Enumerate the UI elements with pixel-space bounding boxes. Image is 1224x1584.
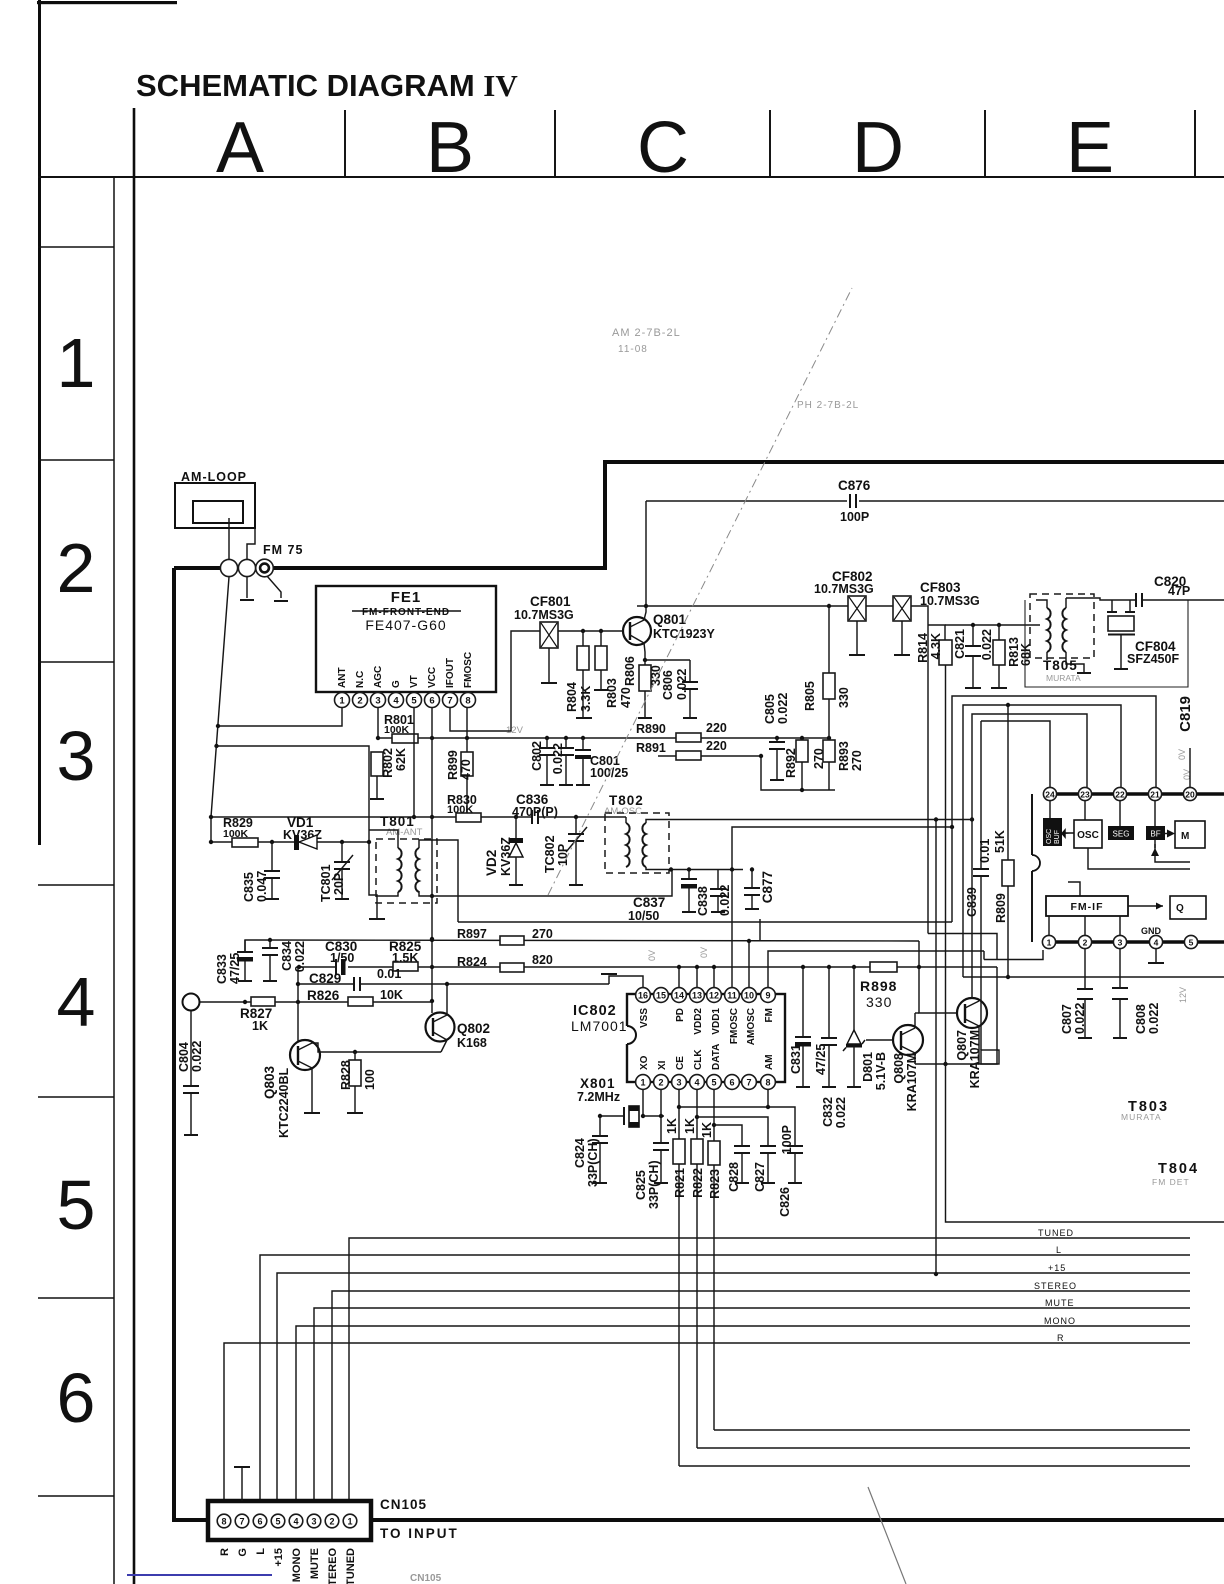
svg-text:20: 20 [1185, 790, 1195, 800]
wire loop1 [952, 696, 1156, 922]
svg-text:3: 3 [1118, 938, 1123, 948]
svg-text:C831: C831 [789, 1044, 803, 1074]
svg-text:16: 16 [638, 991, 648, 1001]
wire IF to pin1 [928, 934, 997, 960]
wire VCC pin6 drop [431, 708, 433, 738]
svg-text:R802: R802 [381, 748, 395, 778]
svg-text:MONO: MONO [291, 1548, 303, 1583]
wire rail y984 C829 [299, 983, 354, 985]
svg-text:R809: R809 [994, 893, 1008, 923]
svg-text:SFZ450F: SFZ450F [1127, 652, 1179, 666]
svg-text:47/25: 47/25 [228, 953, 242, 984]
svg-text:R803: R803 [605, 678, 619, 708]
svg-text:MURATA: MURATA [1046, 673, 1081, 683]
svg-text:R: R [219, 1548, 231, 1556]
transistor Q801 [623, 617, 651, 645]
wire Q807 base rail [919, 941, 957, 1013]
svg-text:C806: C806 [661, 670, 675, 700]
svg-text:CF801: CF801 [530, 594, 571, 609]
svg-text:4: 4 [1154, 938, 1159, 948]
capacitor C828 [734, 1145, 750, 1147]
svg-text:VD2: VD2 [484, 850, 499, 876]
capacitor 0.022 [564, 736, 568, 740]
IC801 top pin bus [1043, 792, 1224, 795]
svg-text:24: 24 [1045, 790, 1055, 800]
svg-text:1K: 1K [700, 1122, 714, 1138]
resistor R805 [828, 606, 830, 738]
svg-text:22: 22 [1115, 790, 1125, 800]
svg-text:R899: R899 [446, 750, 460, 780]
svg-text:XI: XI [657, 1060, 668, 1070]
svg-text:4: 4 [57, 963, 96, 1041]
block SEG [1119, 801, 1121, 826]
wire spine x432 [431, 738, 433, 1013]
svg-text:2: 2 [357, 696, 362, 707]
svg-text:R892: R892 [784, 748, 798, 778]
svg-text:8: 8 [465, 696, 470, 707]
IC801 bottom pin bus [1042, 940, 1224, 943]
svg-text:100P: 100P [780, 1125, 794, 1154]
wire Q801 collector rail to filters [637, 605, 848, 607]
wire T802 secondary bottom [646, 867, 743, 870]
wire AM osc line y922 [458, 921, 952, 923]
svg-text:20P: 20P [332, 873, 346, 895]
diode D801 zener [852, 965, 856, 969]
svg-text:33P(CH): 33P(CH) [647, 1160, 661, 1209]
wire pin3 AGC drop [377, 708, 379, 738]
svg-text:X801: X801 [580, 1076, 616, 1091]
block OSC BUF [1049, 801, 1051, 818]
IC801 bottom pins [1042, 935, 1197, 948]
svg-text:7: 7 [239, 1517, 244, 1527]
svg-text:C804: C804 [177, 1042, 191, 1072]
svg-text:3.3K: 3.3K [579, 686, 593, 712]
svg-text:AM-OSC: AM-OSC [604, 806, 642, 817]
wire AM rail y842 [211, 841, 369, 843]
transistor Q807 [957, 998, 987, 1028]
svg-text:10.7MS3G: 10.7MS3G [514, 608, 574, 622]
svg-text:62K: 62K [394, 748, 408, 771]
svg-text:C805: C805 [763, 694, 777, 724]
wire filter rail to T805 [945, 624, 1040, 626]
page frame left border [38, 0, 41, 845]
svg-text:1K: 1K [252, 1019, 268, 1033]
svg-text:MUTE: MUTE [1045, 1298, 1075, 1308]
svg-text:VT: VT [409, 675, 420, 688]
capacitor C826 [787, 1145, 803, 1147]
svg-text:FM-IF: FM-IF [1071, 901, 1104, 913]
capacitor C831 electrolytic [801, 965, 805, 969]
bus line3 +15 [277, 1273, 1190, 1501]
column header ticks [344, 110, 346, 177]
svg-text:N.C: N.C [355, 671, 366, 688]
svg-text:Q807: Q807 [955, 1030, 969, 1061]
bus line4 STEREO [332, 1291, 1190, 1501]
svg-text:D801: D801 [861, 1052, 875, 1082]
svg-text:PH 2-7B-2L: PH 2-7B-2L [797, 400, 859, 411]
svg-text:TUNED: TUNED [1038, 1228, 1074, 1238]
svg-text:4.3K: 4.3K [929, 633, 943, 659]
wire pad stubs [211, 577, 229, 842]
svg-text:2: 2 [329, 1517, 334, 1527]
svg-text:330: 330 [866, 994, 892, 1010]
svg-text:C839: C839 [965, 887, 979, 917]
fold mark diagonal [548, 288, 852, 895]
capacitor C801 electrolytic [581, 736, 585, 740]
svg-text:1K: 1K [665, 1118, 679, 1134]
CN105 pins [217, 1514, 357, 1528]
svg-text:6: 6 [429, 696, 434, 707]
capacitor C833 electrolytic [244, 940, 246, 952]
svg-text:470: 470 [459, 759, 473, 780]
svg-text:PD: PD [675, 1008, 686, 1022]
svg-text:R890: R890 [636, 722, 666, 736]
capacitor C832 [827, 965, 831, 969]
wire T801 primary top [369, 830, 398, 848]
wire pins 14,13,12 to rail [678, 967, 680, 987]
svg-text:5: 5 [711, 1078, 716, 1088]
svg-text:1: 1 [339, 696, 345, 707]
svg-text:3: 3 [57, 717, 96, 795]
bus line7 R [224, 1343, 1190, 1501]
svg-text:FMOSC: FMOSC [463, 652, 474, 688]
wire stub x760 [759, 919, 761, 941]
svg-text:R891: R891 [636, 741, 666, 755]
bus line6 MONO [296, 1326, 1190, 1501]
wire pin20 riser [1189, 748, 1191, 787]
svg-text:C829: C829 [309, 971, 341, 986]
wire left column x298 [297, 967, 299, 1048]
svg-text:4: 4 [694, 1078, 699, 1088]
svg-text:5: 5 [57, 1166, 96, 1244]
svg-text:C838: C838 [696, 886, 710, 916]
wire thick main loop (antenna rail / +B frame) [174, 462, 1224, 568]
svg-text:2: 2 [57, 529, 96, 607]
svg-text:7: 7 [746, 1078, 751, 1088]
svg-text:47/25: 47/25 [814, 1044, 828, 1075]
svg-text:10K: 10K [380, 988, 403, 1002]
bus lower line R821 [679, 1465, 1190, 1467]
svg-text:C808: C808 [1134, 1004, 1148, 1034]
svg-text:15: 15 [656, 991, 666, 1001]
svg-text:R824: R824 [457, 955, 487, 969]
svg-text:R806: R806 [623, 656, 637, 686]
svg-text:R822: R822 [691, 1168, 705, 1198]
wire pin8 AM drop [767, 1089, 769, 1107]
svg-text:13: 13 [692, 991, 702, 1001]
svg-text:3: 3 [311, 1517, 316, 1527]
resistor R804 [582, 631, 584, 646]
svg-text:M: M [1181, 831, 1189, 842]
svg-text:TC801: TC801 [319, 864, 333, 902]
capacitor C835 [271, 842, 273, 871]
svg-text:VCC: VCC [427, 667, 438, 688]
schematic frame double line [133, 108, 136, 1584]
resistor R899 [466, 708, 468, 817]
wire T805 out to C820 [1066, 598, 1136, 600]
svg-text:68K: 68K [1019, 643, 1033, 666]
svg-text:R897: R897 [457, 927, 487, 941]
svg-text:Q808: Q808 [892, 1053, 906, 1084]
svg-text:0V: 0V [647, 950, 657, 961]
capacitor C877 [751, 870, 753, 889]
svg-text:T805: T805 [1043, 658, 1078, 673]
svg-text:T804: T804 [1158, 1161, 1199, 1177]
svg-text:C835: C835 [242, 872, 256, 902]
terminal pads [220, 559, 237, 576]
wire bf internal [1155, 844, 1190, 862]
wire rail y967 [299, 966, 336, 968]
resistor R802 [371, 752, 383, 776]
svg-text:12: 12 [709, 991, 719, 1001]
svg-text:3: 3 [676, 1078, 681, 1088]
svg-text:K168: K168 [457, 1036, 487, 1050]
ceramic filter CF804 [1111, 600, 1113, 612]
ground T801 primary [369, 918, 385, 920]
bus line1 TUNED [349, 1238, 1190, 1501]
svg-text:CN105: CN105 [380, 1497, 427, 1512]
wire pin5 VT drop [413, 708, 415, 817]
transformer T805 [1030, 594, 1094, 658]
svg-text:12V: 12V [1178, 987, 1188, 1003]
svg-text:AM-ANT: AM-ANT [386, 827, 423, 838]
wire pin1 feed [984, 950, 1043, 960]
capacitor C824 [599, 1116, 601, 1136]
svg-text:C826: C826 [778, 1187, 792, 1217]
resistor R803 [600, 631, 602, 646]
svg-text:270: 270 [532, 927, 553, 941]
svg-text:STEREO: STEREO [1034, 1281, 1077, 1291]
svg-text:0.047: 0.047 [255, 871, 269, 902]
svg-text:FMOSC: FMOSC [729, 1008, 740, 1044]
svg-text:C832: C832 [821, 1097, 835, 1127]
svg-text:STEREO: STEREO [327, 1548, 339, 1584]
row dividers [38, 246, 114, 248]
block M [1175, 821, 1205, 848]
svg-text:L: L [1056, 1245, 1062, 1255]
svg-text:MONO: MONO [1044, 1316, 1076, 1326]
capacitor C802 [545, 736, 549, 740]
svg-text:1: 1 [57, 324, 96, 402]
svg-text:6: 6 [729, 1078, 734, 1088]
wire Q801 collector + C876 riser [644, 501, 646, 620]
svg-text:7.2MHz: 7.2MHz [577, 1090, 620, 1104]
wire pin16 VSS ground [609, 976, 643, 987]
svg-text:AMOSC: AMOSC [746, 1008, 757, 1045]
capacitor C808 [1119, 949, 1121, 988]
svg-text:AM: AM [764, 1054, 775, 1070]
wire Q808 emitter [914, 1053, 916, 1064]
wire thick left vertical down to CN105 [174, 568, 208, 1520]
wire CLK row to C827 [697, 1117, 768, 1146]
svg-text:R828: R828 [339, 1060, 353, 1090]
capacitor C805 [775, 736, 779, 740]
svg-text:AM 2-7B-2L: AM 2-7B-2L [612, 327, 681, 339]
svg-text:220: 220 [706, 739, 727, 753]
svg-text:33P(CH): 33P(CH) [586, 1138, 600, 1187]
wire CE row to C826 [679, 1107, 795, 1146]
transistor Q803 [290, 1040, 320, 1070]
svg-text:0.022: 0.022 [293, 941, 307, 972]
svg-text:MURATA: MURATA [1121, 1112, 1162, 1122]
svg-text:TC802: TC802 [543, 835, 557, 873]
svg-text:5: 5 [411, 696, 417, 707]
IC802 top pin labels [639, 1008, 775, 1070]
svg-text:8: 8 [765, 1078, 770, 1088]
bus line5 MUTE [314, 1308, 1190, 1501]
svg-text:R814: R814 [916, 633, 930, 663]
svg-text:KRA107M: KRA107M [968, 1030, 982, 1088]
svg-text:0V: 0V [699, 947, 709, 958]
resistor R809 [1007, 705, 1009, 860]
svg-text:TUNED: TUNED [345, 1548, 357, 1584]
capacitor C804 [190, 1011, 192, 1086]
resistor R893 [827, 736, 831, 740]
FE1 pin labels [337, 652, 474, 688]
svg-text:FE407-G60: FE407-G60 [365, 617, 446, 633]
svg-text:0.022: 0.022 [980, 629, 994, 660]
wire pin10 AMOSC riser [748, 941, 750, 987]
page frame top border [37, 1, 177, 4]
svg-text:R898: R898 [860, 978, 897, 994]
IC802 LM7001 body [627, 994, 785, 1082]
capacitor C807 [1084, 949, 1086, 989]
wire T801 secondary bottom to C837 node [419, 870, 672, 896]
svg-text:14: 14 [674, 991, 684, 1001]
svg-text:6: 6 [257, 1517, 262, 1527]
svg-text:Q803: Q803 [262, 1065, 277, 1099]
svg-text:AGC: AGC [373, 666, 384, 688]
svg-text:KRA107M: KRA107M [905, 1053, 919, 1111]
wire loop3 [972, 714, 1087, 999]
wire CF803 out [911, 606, 928, 934]
wire DATA row to C828 [714, 1125, 742, 1146]
svg-text:10.7MS3G: 10.7MS3G [814, 582, 874, 596]
svg-text:Q801: Q801 [653, 612, 687, 627]
svg-text:+15: +15 [273, 1548, 285, 1567]
resistor R892 [800, 736, 804, 740]
IC802 pins 1-8 bottom [636, 1075, 776, 1090]
svg-text:3: 3 [375, 696, 380, 707]
svg-text:GND: GND [1141, 926, 1162, 936]
svg-text:C824: C824 [573, 1138, 587, 1168]
svg-text:CE: CE [675, 1056, 686, 1070]
IC802 pins 16-9 top [636, 988, 776, 1003]
jumper box [981, 1050, 999, 1064]
svg-text:11-08: 11-08 [618, 344, 648, 355]
svg-text:0.022: 0.022 [1147, 1003, 1161, 1034]
svg-text:MUTE: MUTE [309, 1548, 321, 1579]
svg-text:C828: C828 [727, 1162, 741, 1192]
wire T801 primary bottom [377, 892, 398, 896]
svg-text:FM 75: FM 75 [263, 543, 303, 557]
wire Q803 collector [312, 1043, 441, 1052]
svg-text:2: 2 [658, 1078, 663, 1088]
antenna pad [183, 994, 200, 1011]
svg-text:CLK: CLK [693, 1049, 704, 1070]
svg-text:C877: C877 [760, 871, 775, 903]
svg-text:51K: 51K [993, 830, 1007, 853]
svg-text:R823: R823 [708, 1169, 722, 1199]
svg-text:4: 4 [293, 1517, 298, 1527]
svg-text:270: 270 [850, 750, 864, 771]
svg-text:C807: C807 [1060, 1004, 1074, 1034]
wire pin9 FM riser [768, 951, 984, 987]
wire osc internal [1088, 848, 1190, 869]
wire loop2 [963, 705, 1121, 977]
trimmer TC801 [341, 842, 343, 862]
node 12V [430, 736, 434, 740]
header bottom rule [38, 176, 1224, 178]
svg-text:AM-LOOP: AM-LOOP [181, 470, 247, 484]
svg-text:ANT: ANT [337, 667, 348, 688]
wire pin7 IFOUT to CF801 [450, 631, 540, 731]
wire out rail y977 [963, 976, 1224, 978]
wire Q802 emitter [441, 1040, 447, 1052]
svg-text:5: 5 [275, 1517, 280, 1527]
vertical bus x945 [946, 951, 1224, 1222]
T805 shield box [1025, 600, 1188, 687]
svg-text:100K: 100K [384, 724, 410, 736]
capacitor C821 [971, 623, 975, 627]
svg-text:11: 11 [727, 991, 737, 1001]
svg-text:1K: 1K [683, 1118, 697, 1134]
wire thick bottom rail right of CN105 [371, 1518, 1224, 1522]
svg-text:470: 470 [619, 687, 633, 708]
ground pin4 [1155, 949, 1157, 962]
vertical bus x936 [935, 820, 937, 1274]
svg-text:KV36Z: KV36Z [499, 837, 513, 876]
wire pins up to FM-IF [1048, 916, 1050, 935]
resistor R814 [928, 625, 945, 640]
svg-text:IFOUT: IFOUT [445, 658, 456, 688]
diode VD2 varactor [514, 815, 518, 819]
FE1 pins 1-8 [335, 693, 476, 708]
svg-text:330: 330 [837, 687, 851, 708]
svg-text:0.01: 0.01 [978, 839, 992, 863]
wire rail y1001 [199, 1001, 432, 1003]
svg-text:SEG: SEG [1113, 830, 1130, 839]
svg-text:9: 9 [765, 991, 770, 1001]
bus lower line R823 [714, 1429, 1190, 1431]
svg-text:OSC: OSC [1077, 830, 1099, 841]
IC801 top pins [1043, 787, 1196, 800]
svg-text:BF: BF [1150, 830, 1160, 839]
svg-text:5.1V-B: 5.1V-B [874, 1052, 888, 1090]
resistor R827 [251, 997, 275, 1006]
svg-text:1: 1 [640, 1078, 645, 1088]
IC801 right IC body [1031, 794, 1033, 942]
svg-text:TO INPUT: TO INPUT [380, 1526, 459, 1541]
resistor R806 [639, 665, 651, 691]
block Q detector [1170, 896, 1206, 919]
svg-text:C834: C834 [280, 941, 294, 971]
svg-text:10: 10 [744, 991, 754, 1001]
svg-text:Q802: Q802 [457, 1021, 490, 1036]
svg-text:Q: Q [1176, 903, 1184, 914]
svg-text:L: L [255, 1548, 267, 1555]
bus signal labels [1034, 1228, 1077, 1343]
wire T802 secondary top long [646, 820, 972, 824]
CN105 pin name labels [219, 1548, 357, 1584]
svg-text:0.022: 0.022 [834, 1097, 848, 1128]
svg-text:C833: C833 [215, 954, 229, 984]
svg-text:2: 2 [1083, 938, 1088, 948]
svg-text:R821: R821 [673, 1168, 687, 1198]
trimmer TC802 [574, 815, 578, 819]
wire Q808 base [866, 1039, 893, 1041]
transistor Q802 [426, 1013, 455, 1042]
